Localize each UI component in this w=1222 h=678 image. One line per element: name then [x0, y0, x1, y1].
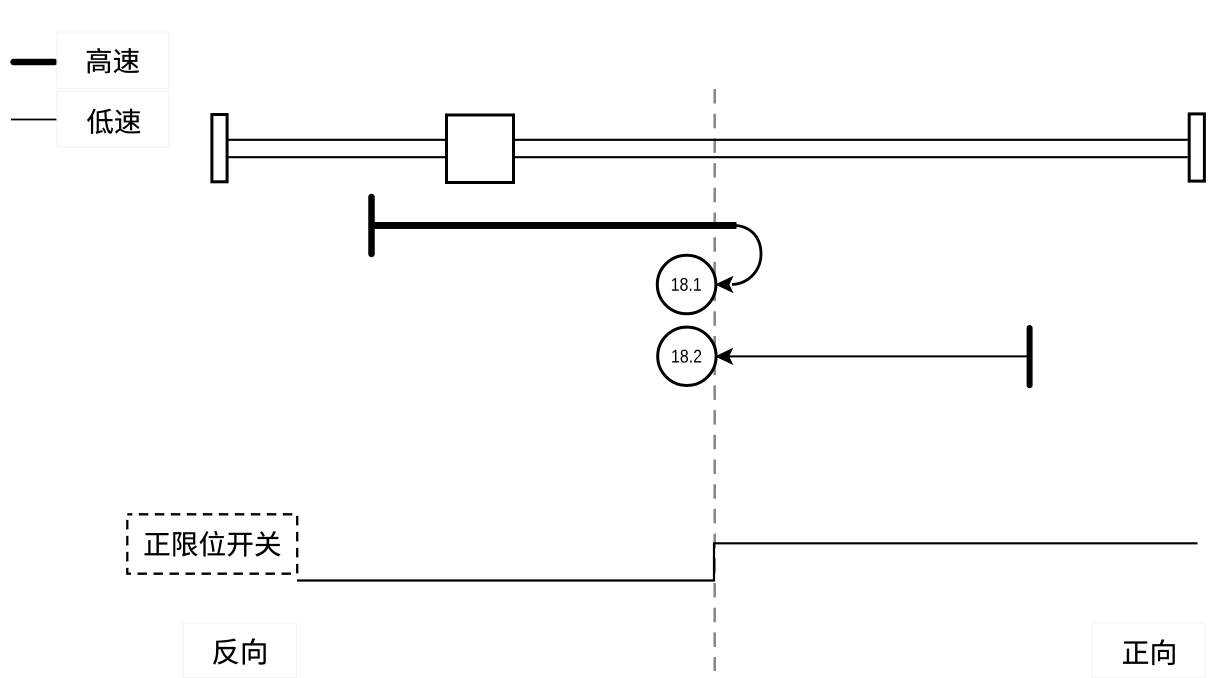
high-speed motion line (thick): [372, 222, 737, 229]
legend faint cell borders: [57, 32, 169, 147]
legend label 低速: [87, 109, 140, 134]
circle 18.2: [658, 327, 716, 385]
dashed reference vertical line: [713, 89, 716, 671]
label 正向: [1123, 639, 1175, 665]
carriage block: [447, 115, 514, 183]
legend low-speed sample line: [11, 119, 57, 121]
legend label 高速: [87, 48, 139, 73]
limit switch signal step waveform: [297, 543, 1198, 580]
legend high-speed sample line: [14, 59, 55, 66]
start T-bar of high-speed line: [368, 197, 375, 254]
right end stop: [1189, 114, 1204, 181]
label 18.2: [672, 350, 701, 363]
low-speed arrow head: [716, 349, 732, 364]
curved arrow head: [716, 277, 732, 292]
rail bottom line: [229, 156, 1188, 158]
left end stop: [212, 115, 227, 182]
start T-bar of low-speed line: [1027, 328, 1033, 385]
low-speed approach line: [729, 355, 1030, 357]
curved reversal arrow: [732, 226, 761, 285]
rail top line: [229, 139, 1188, 141]
label 正限位开关: [144, 531, 280, 557]
faint cell border around 反向: [183, 623, 296, 678]
circle 18.1: [657, 255, 716, 314]
dashed box positive limit switch: [127, 514, 297, 573]
label 反向: [213, 638, 266, 664]
faint cell border around 正向: [1092, 623, 1205, 678]
label 18.1: [672, 278, 701, 291]
